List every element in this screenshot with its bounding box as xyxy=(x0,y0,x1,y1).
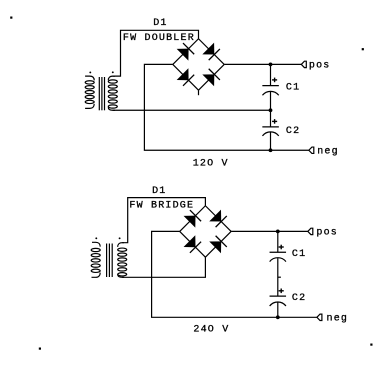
svg-text:FW DOUBLER: FW DOUBLER xyxy=(123,33,195,44)
wire: bridge bottom vertex stub (unconnected, top circuit) xyxy=(198,90,200,95)
transformer (bottom circuit) secondary winding xyxy=(118,243,127,278)
wire: bridge left vertex down to negative rail (top circuit) xyxy=(144,64,308,150)
terminal pos (bottom circuit) xyxy=(308,228,313,234)
transformer (top circuit) primary phase dot xyxy=(89,71,91,73)
capacitor C1 (top): negative curved plate xyxy=(262,91,278,95)
diode bridge D1 (bottom, FW bridge): diamond outline xyxy=(180,206,231,257)
diode of D1 (top, FW doubler), upper-right (anode top, cathode right) xyxy=(202,43,220,61)
capacitor C1 (top): plus sign xyxy=(272,78,277,83)
junction: pos rail / C1 (bottom circuit) xyxy=(276,230,280,234)
capacitor C2 (bottom): positive flat plate xyxy=(270,295,287,297)
terminal neg (bottom circuit) xyxy=(317,314,322,320)
svg-text:pos: pos xyxy=(309,61,331,72)
svg-text:12O V: 12O V xyxy=(193,158,229,169)
diode of D1 (top, FW doubler), lower-left (anode left, cathode bottom) xyxy=(177,68,195,86)
junction: neg rail / C2 (top circuit) xyxy=(269,148,273,152)
transformer (top circuit) primary winding xyxy=(85,76,94,108)
capacitor C2 (top): negative curved plate xyxy=(262,132,278,136)
svg-text:24O V: 24O V xyxy=(193,325,229,336)
wire: C1 to C2 (bottom circuit) xyxy=(277,258,279,296)
svg-text:neg: neg xyxy=(317,146,339,157)
junction: pos rail / C1 (top circuit) xyxy=(269,63,273,67)
capacitor C1 (bottom): negative curved plate xyxy=(270,258,286,262)
wire: bridge left vertex down to negative rail (bottom circuit) xyxy=(152,231,317,317)
diode of D1 (top, FW doubler), upper-left (anode left, cathode top) xyxy=(177,43,195,61)
terminal neg (top circuit) xyxy=(309,147,314,153)
wire: midpoint stub (bottom circuit) xyxy=(278,276,281,278)
diode of D1 (bottom, FW bridge), lower-right (anode bottom, cathode right) xyxy=(209,236,227,254)
capacitor C2 (bottom): plus sign xyxy=(279,289,284,294)
svg-text:C2: C2 xyxy=(292,293,306,304)
svg-text:pos: pos xyxy=(316,228,338,239)
capacitor C1 (top): positive flat plate xyxy=(262,85,279,87)
transformer (bottom circuit) primary winding xyxy=(91,242,100,277)
wire: C2 to negative rail (bottom circuit) xyxy=(277,302,279,317)
capacitor C2 (bottom): negative curved plate xyxy=(270,302,286,306)
junction: capacitor midpoint (top circuit) xyxy=(269,108,273,112)
capacitor C2 (top): positive flat plate xyxy=(262,126,279,128)
wire: secondary top to bridge top vertex (runs under D1 label) xyxy=(113,30,199,76)
transformer (bottom circuit) primary phase dot xyxy=(95,237,97,239)
wire: bridge right vertex to pos terminal (bottom circuit) xyxy=(231,230,308,232)
diode bridge D1 (top, FW doubler): diamond outline xyxy=(173,39,224,90)
diode of D1 (bottom, FW bridge), upper-left (anode left, cathode top) xyxy=(184,210,202,228)
wire: pos rail down to C1 (bottom circuit) xyxy=(277,231,279,252)
svg-text:FW BRIDGE: FW BRIDGE xyxy=(129,201,194,212)
wire: C1 to C2 through midpoint (top circuit) xyxy=(270,92,272,127)
capacitor C1 (bottom): plus sign xyxy=(279,245,284,250)
transformer (bottom circuit) secondary phase dot xyxy=(119,237,121,239)
transformer (top circuit) secondary winding xyxy=(108,76,117,110)
junction: neg rail / C2 (bottom circuit) xyxy=(276,315,280,319)
capacitor C1 (bottom): positive flat plate xyxy=(270,251,287,253)
svg-text:D1: D1 xyxy=(153,18,167,29)
svg-text:D1: D1 xyxy=(152,186,166,197)
svg-text:C1: C1 xyxy=(292,249,306,260)
transformer (top circuit) core xyxy=(99,77,104,110)
diode of D1 (bottom, FW bridge), lower-left (anode left, cathode bottom) xyxy=(184,235,202,253)
capacitor C2 (top): plus sign xyxy=(272,119,277,124)
diode of D1 (bottom, FW bridge), upper-right (anode top, cathode right) xyxy=(209,210,227,228)
svg-text:C2: C2 xyxy=(286,126,300,137)
transformer (bottom circuit) core xyxy=(107,244,113,278)
terminal pos (top circuit) xyxy=(301,61,306,67)
wire: secondary bottom to capacitor midpoint (top circuit) xyxy=(113,109,271,111)
svg-text:C1: C1 xyxy=(286,83,300,94)
transformer (top circuit) secondary phase dot xyxy=(112,71,114,73)
diode of D1 (top, FW doubler), lower-right (anode bottom, cathode right) xyxy=(202,69,220,87)
wire: pos rail down to C1 (top circuit) xyxy=(270,64,272,85)
wire: secondary bottom up to bridge bottom vertex (bottom circuit) xyxy=(122,257,205,277)
wire: C2 to negative rail (top circuit) xyxy=(270,132,272,150)
wire: secondary top to bridge top vertex (bottom circuit) xyxy=(122,198,205,243)
svg-text:neg: neg xyxy=(327,314,349,325)
wire: bridge right vertex to pos terminal (top circuit) xyxy=(224,63,301,65)
